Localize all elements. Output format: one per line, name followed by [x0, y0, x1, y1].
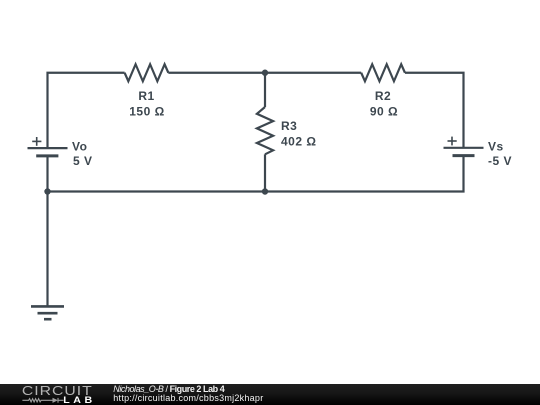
label V2 name Vs	[488, 140, 504, 154]
svg-text:Vs: Vs	[488, 140, 504, 154]
wire W10: node C down to ground	[46, 192, 48, 307]
footer title line	[113, 385, 224, 394]
label R3 value 402 ohm	[281, 135, 316, 149]
svg-text:150 Ω: 150 Ω	[129, 105, 164, 119]
footer url line	[113, 394, 263, 403]
label V2 value -5 V	[488, 154, 512, 168]
wire W6: R3 bottom down to node B	[264, 154, 266, 191]
wire W7: Vo negative terminal down to node C	[46, 156, 48, 192]
wire W4: R2 right across and down to Vs positive terminal	[405, 73, 464, 148]
logo wordmark CIRCUIT	[22, 385, 93, 399]
wire W8: Vs negative terminal down and across bottom rail to node B	[265, 156, 464, 192]
footer bar	[0, 384, 540, 405]
ground symbol	[31, 306, 64, 319]
svg-text:LAB: LAB	[63, 396, 96, 405]
label R1 value 150 ohm	[129, 105, 164, 119]
svg-text:5 V: 5 V	[73, 154, 93, 168]
wire W1: Vo positive terminal up and across to R1 left	[48, 73, 125, 148]
voltage source V1 Vo plates	[28, 148, 68, 156]
resistor R1 zigzag	[125, 64, 169, 81]
svg-text:R2: R2	[375, 89, 391, 103]
resistor R2 zigzag	[361, 64, 405, 81]
logo wordmark LAB	[63, 396, 96, 405]
wire W9: bottom rail node B to node C	[48, 190, 266, 192]
junction node A	[262, 70, 268, 76]
label R2 name	[375, 89, 391, 103]
CircuitLab logo	[0, 384, 100, 405]
label R2 value 90 ohm	[370, 105, 398, 119]
voltage source V2 Vs plates	[444, 148, 484, 156]
junction node C	[44, 188, 50, 194]
wire W2: R1 right to node A	[168, 72, 265, 74]
svg-text:R3: R3	[281, 119, 297, 133]
label V1 name Vo	[72, 140, 87, 154]
svg-text:Vo: Vo	[72, 140, 87, 154]
voltage source V1 plus sign	[32, 137, 41, 146]
svg-text:-5 V: -5 V	[488, 154, 512, 168]
svg-text:402 Ω: 402 Ω	[281, 135, 316, 149]
label V1 value 5 V	[73, 154, 93, 168]
wire W5: node A down to R3 top	[264, 73, 266, 107]
svg-text:R1: R1	[138, 89, 154, 103]
logo schematic doodle: wire with resistor and diode	[22, 398, 63, 403]
label R3 name	[281, 119, 297, 133]
wire W3: node A to R2 left	[265, 72, 361, 74]
svg-text:90 Ω: 90 Ω	[370, 105, 398, 119]
voltage source V2 plus sign	[448, 137, 457, 146]
resistor R3 zigzag (vertical)	[257, 107, 273, 154]
junction node B	[262, 188, 268, 194]
label R1 name	[138, 89, 154, 103]
